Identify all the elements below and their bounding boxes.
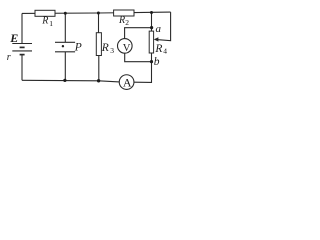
resistor R3	[96, 33, 101, 56]
voltmeter circle	[118, 39, 133, 54]
svg-text:1: 1	[49, 19, 53, 28]
resistor R4 (rheostat)	[149, 31, 153, 53]
capacitor plates	[55, 42, 75, 52]
battery E r	[12, 44, 32, 55]
svg-text:E: E	[9, 31, 18, 45]
svg-text:R: R	[154, 43, 162, 55]
wire R3 branch lower	[98, 56, 100, 81]
wire node a branch from top	[151, 13, 153, 32]
wire capacitor branch upper	[64, 13, 66, 42]
svg-text:2: 2	[125, 18, 129, 27]
ammeter circle	[119, 75, 134, 90]
wire top	[22, 12, 171, 13]
wire voltmeter bottom to node b	[125, 53, 152, 62]
rheostat wiper arrowhead	[154, 37, 159, 41]
particle P dot	[62, 45, 64, 47]
wire left branch upper	[21, 13, 23, 43]
svg-text:R: R	[41, 15, 48, 26]
wire bottom left of ammeter	[22, 80, 119, 82]
svg-text:P: P	[74, 42, 82, 54]
svg-text:V: V	[123, 43, 131, 54]
resistor R2	[114, 10, 134, 16]
svg-text:3: 3	[110, 46, 114, 55]
wire R3 branch upper	[98, 13, 100, 33]
wire R4 bottom to node b	[151, 53, 153, 62]
svg-text:4: 4	[163, 47, 167, 56]
svg-text:a: a	[156, 23, 162, 35]
svg-text:R: R	[118, 15, 125, 26]
wire capacitor branch lower	[64, 52, 66, 81]
svg-text:R: R	[101, 42, 109, 54]
wire voltmeter top to node a	[125, 28, 152, 39]
wire right edge and rheostat wiper	[158, 12, 170, 41]
wire bottom right of ammeter up to node b	[134, 62, 152, 83]
svg-text:A: A	[123, 76, 132, 90]
svg-text:r: r	[7, 52, 11, 63]
resistor R1	[35, 10, 55, 16]
svg-text:b: b	[154, 56, 160, 68]
junction dots	[63, 11, 153, 83]
wire left branch lower	[21, 55, 23, 81]
